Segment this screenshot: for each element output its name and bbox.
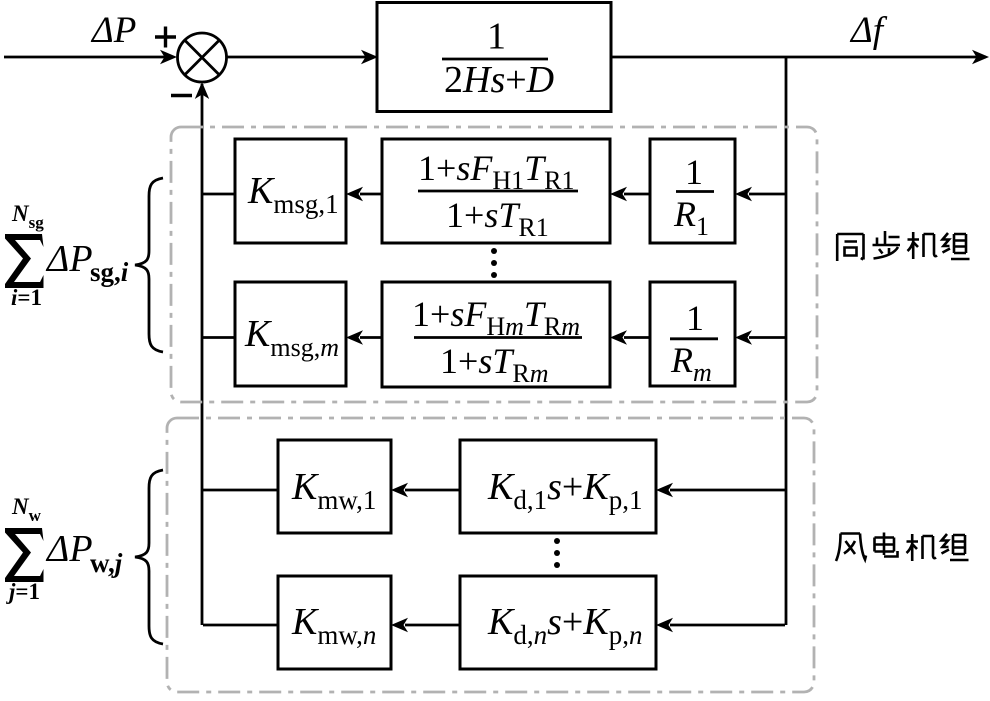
label sync group (Chinese) xyxy=(837,231,969,261)
arrow into TF1 xyxy=(610,187,627,201)
char feng xyxy=(836,534,866,562)
arrow into Kdns+Kpn xyxy=(656,618,673,632)
block 1/Rm xyxy=(650,282,735,386)
node sum dPsg label xyxy=(5,201,129,310)
group box sync units (dash-dot) xyxy=(171,127,817,402)
char dian xyxy=(875,533,898,557)
arrow into K_mw,n xyxy=(391,618,408,632)
svg-text:1: 1 xyxy=(686,298,704,338)
summing junction U1 xyxy=(178,33,227,82)
wire input xyxy=(4,56,165,59)
block K_mw,1 xyxy=(278,440,391,533)
block K_msg,m xyxy=(235,282,346,386)
svg-text:sg,i: sg,i xyxy=(90,257,129,287)
dots sync ellipsis xyxy=(491,248,497,278)
svg-text:R1: R1 xyxy=(673,194,709,241)
value label 1/(2Hs+D) xyxy=(442,16,554,102)
node sum dPw label xyxy=(5,494,123,604)
arrow into 1/Rm xyxy=(735,330,752,344)
char ji2 xyxy=(907,534,937,561)
svg-text:Kmsg,1: Kmsg,1 xyxy=(247,170,339,219)
svg-text:ΔP: ΔP xyxy=(45,238,93,280)
svg-text:w,j: w,j xyxy=(90,548,123,578)
svg-text:Nsg: Nsg xyxy=(11,201,44,232)
block G1 main 1/(2Hs+D) xyxy=(377,3,611,112)
svg-text:Δf: Δf xyxy=(849,10,888,51)
svg-text:Kmw,n: Kmw,n xyxy=(291,601,376,650)
block TF2 governor m xyxy=(382,282,610,387)
svg-text:j=1: j=1 xyxy=(5,579,40,604)
svg-text:1+sTR1: 1+sTR1 xyxy=(446,195,549,242)
wire K_msgm out xyxy=(203,336,235,339)
arrow into 1/R1 xyxy=(735,187,752,201)
block 1/R1 xyxy=(650,139,735,243)
block Kdns+Kpn xyxy=(460,576,656,669)
wire R1 to TF1 xyxy=(624,193,650,196)
label wind group (Chinese) xyxy=(836,533,969,562)
minus sign xyxy=(171,94,192,97)
arrow into K_msg,m xyxy=(346,330,363,344)
svg-text:2Hs+D: 2Hs+D xyxy=(444,59,554,101)
svg-text:1: 1 xyxy=(487,16,506,58)
wire output xyxy=(611,56,986,59)
wire TF1 to K_msg,1 xyxy=(360,193,382,196)
wire junction to main block xyxy=(226,56,366,59)
wire K_mw1 out xyxy=(203,489,278,492)
char zu2 xyxy=(942,534,969,560)
svg-text:Rm: Rm xyxy=(670,340,712,387)
wire K_mwn out xyxy=(203,624,278,627)
group box wind units (dash-dot) xyxy=(167,418,814,692)
arrow into K_msg,1 xyxy=(346,187,363,201)
svg-text:1+sFHmTRm: 1+sFHmTRm xyxy=(412,294,580,341)
arrow into K_mw,1 xyxy=(391,483,408,497)
wire TF2 to K_msg,m xyxy=(360,336,382,339)
arrow into Kd1s+Kp1 xyxy=(656,483,673,497)
wire feedback left vertical xyxy=(201,84,204,625)
wire feedback right vertical xyxy=(785,57,788,625)
block Kd1s+Kp1 xyxy=(460,440,656,533)
char zu1 xyxy=(943,233,970,259)
wire feedback to WTF2 xyxy=(670,624,785,627)
svg-text:i=1: i=1 xyxy=(11,285,42,310)
svg-text:ΔP: ΔP xyxy=(45,528,93,570)
svg-text:1+sTRm: 1+sTRm xyxy=(440,341,548,388)
wire feedback to Rm xyxy=(749,336,785,339)
wire WTF2 to K_mw,n xyxy=(405,624,460,627)
cross in summing junction xyxy=(185,40,219,74)
block TF1 governor xyxy=(382,139,610,243)
svg-text:Kd,1s+Kp,1: Kd,1s+Kp,1 xyxy=(487,466,642,515)
svg-text:Nw: Nw xyxy=(11,494,42,525)
plus sign xyxy=(155,27,176,48)
arrow into summing junction xyxy=(160,50,177,64)
arrow into summing junction from below xyxy=(195,82,209,99)
arrow output xyxy=(972,50,989,64)
char bu xyxy=(873,231,901,259)
wire WTF1 to K_mw,1 xyxy=(405,489,460,492)
wire feedback to WTF1 xyxy=(670,489,785,492)
svg-text:ΔP: ΔP xyxy=(90,10,136,51)
wire Rm to TF2 xyxy=(624,336,650,339)
brace wind xyxy=(135,470,163,644)
char ji1 xyxy=(908,232,938,259)
svg-text:1+sFH1TR1: 1+sFH1TR1 xyxy=(418,148,574,195)
arrow into main block xyxy=(361,50,378,64)
wire K_msg1 out xyxy=(203,193,235,196)
block K_msg,1 xyxy=(235,139,346,243)
svg-text:1: 1 xyxy=(685,152,703,192)
char tong xyxy=(837,234,863,261)
wire feedback to R1 xyxy=(749,193,785,196)
svg-text:Kmsg,m: Kmsg,m xyxy=(244,313,339,362)
block K_mw,n xyxy=(278,576,391,669)
svg-text:Kmw,1: Kmw,1 xyxy=(291,466,376,515)
svg-text:Kd,ns+Kp,n: Kd,ns+Kp,n xyxy=(487,601,642,650)
arrow into TF2 xyxy=(610,330,627,344)
brace sync xyxy=(135,178,163,352)
dots wind ellipsis xyxy=(554,538,560,568)
